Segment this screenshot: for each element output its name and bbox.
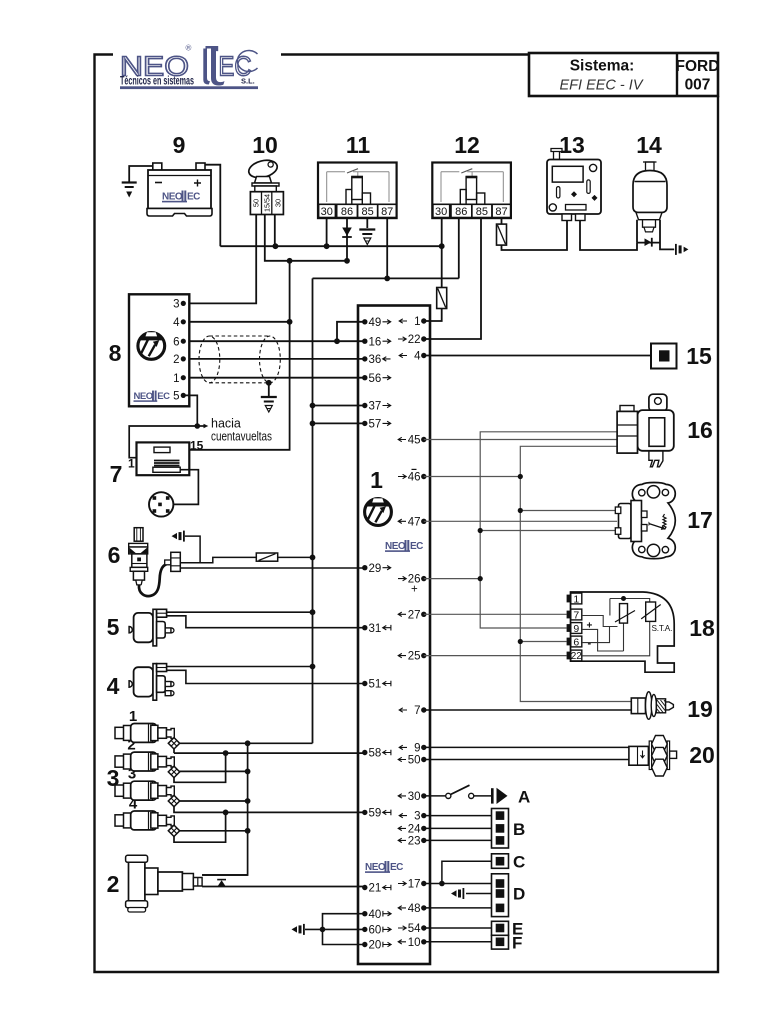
svg-text:6: 6 — [108, 542, 121, 568]
svg-text:3: 3 — [414, 811, 420, 823]
svg-text:49: 49 — [369, 317, 382, 329]
svg-text:10: 10 — [408, 937, 421, 949]
svg-text:25: 25 — [408, 651, 421, 663]
svg-text:56: 56 — [369, 373, 382, 385]
svg-text:10: 10 — [252, 132, 278, 158]
svg-text:1: 1 — [414, 316, 420, 328]
svg-text:1: 1 — [129, 708, 137, 725]
svg-text:15/54: 15/54 — [262, 194, 271, 212]
svg-text:15: 15 — [190, 439, 204, 453]
svg-text:31: 31 — [369, 623, 382, 635]
svg-text:F: F — [512, 934, 522, 953]
svg-text:21: 21 — [369, 883, 382, 895]
svg-text:5: 5 — [173, 391, 179, 403]
svg-text:40: 40 — [369, 909, 382, 921]
svg-text:29: 29 — [369, 563, 382, 575]
svg-text:30: 30 — [408, 791, 421, 803]
svg-text:B: B — [513, 820, 525, 839]
svg-text:54: 54 — [408, 923, 421, 935]
svg-text:007: 007 — [685, 77, 711, 94]
svg-text:FORD: FORD — [676, 58, 720, 75]
svg-text:2: 2 — [107, 871, 120, 897]
svg-text:7: 7 — [110, 461, 123, 487]
svg-text:S.T.A.: S.T.A. — [652, 624, 673, 633]
svg-text:27: 27 — [408, 609, 421, 621]
svg-text:C: C — [513, 853, 525, 872]
svg-text:30: 30 — [273, 199, 282, 207]
svg-text:Sistema:: Sistema: — [570, 58, 635, 75]
svg-text:59: 59 — [369, 808, 382, 820]
svg-text:A: A — [518, 788, 530, 807]
svg-text:12: 12 — [454, 132, 480, 158]
svg-text:16: 16 — [687, 417, 713, 443]
svg-text:5: 5 — [107, 614, 120, 640]
svg-text:57: 57 — [369, 419, 382, 431]
svg-text:46: 46 — [408, 472, 421, 484]
svg-text:15: 15 — [686, 343, 712, 369]
svg-text:48: 48 — [408, 903, 421, 915]
svg-text:47: 47 — [408, 516, 421, 528]
svg-text:4: 4 — [107, 673, 120, 699]
svg-text:22: 22 — [408, 334, 421, 346]
svg-text:hacia: hacia — [211, 417, 241, 431]
svg-text:9: 9 — [573, 623, 579, 635]
svg-text:+: + — [587, 621, 593, 632]
svg-text:1: 1 — [573, 594, 579, 606]
svg-text:1: 1 — [173, 373, 179, 385]
svg-text:8: 8 — [109, 340, 122, 366]
svg-text:3: 3 — [173, 299, 179, 311]
svg-text:4: 4 — [173, 317, 180, 329]
svg-text:17: 17 — [408, 879, 421, 891]
svg-text:7: 7 — [573, 610, 579, 622]
svg-text:14: 14 — [636, 132, 662, 158]
svg-text:11: 11 — [346, 132, 371, 158]
svg-text:cuentavueltas: cuentavueltas — [211, 430, 272, 444]
svg-text:50: 50 — [408, 755, 421, 767]
svg-text:®: ® — [186, 44, 192, 53]
svg-text:18: 18 — [689, 615, 715, 641]
svg-text:S.L.: S.L. — [241, 77, 255, 86]
svg-text:9: 9 — [414, 743, 420, 755]
svg-text:16: 16 — [369, 336, 382, 348]
svg-text:37: 37 — [369, 401, 382, 413]
svg-text:+: + — [411, 584, 418, 596]
svg-text:1: 1 — [128, 457, 135, 471]
svg-text:EFI EEC - IV: EFI EEC - IV — [560, 78, 644, 94]
svg-text:Técnicos en sistemas: Técnicos en sistemas — [120, 76, 194, 88]
svg-text:60: 60 — [369, 925, 382, 937]
svg-text:20: 20 — [689, 742, 715, 768]
svg-text:50: 50 — [252, 199, 261, 207]
svg-text:6: 6 — [173, 336, 179, 348]
svg-text:6: 6 — [573, 637, 579, 649]
svg-text:D: D — [513, 885, 525, 904]
svg-text:58: 58 — [369, 748, 382, 760]
svg-text:22: 22 — [571, 651, 583, 662]
svg-text:20: 20 — [369, 940, 382, 952]
svg-text:51: 51 — [369, 679, 382, 691]
svg-text:2: 2 — [173, 354, 179, 366]
svg-text:23: 23 — [408, 836, 421, 848]
svg-text:17: 17 — [687, 507, 713, 533]
svg-text:45: 45 — [408, 435, 421, 447]
svg-text:-: - — [588, 638, 592, 650]
svg-text:13: 13 — [559, 132, 585, 158]
svg-text:19: 19 — [687, 696, 713, 722]
svg-text:4: 4 — [414, 351, 421, 363]
svg-text:36: 36 — [369, 354, 382, 366]
svg-text:9: 9 — [173, 132, 186, 158]
svg-text:7: 7 — [414, 705, 420, 717]
svg-text:1: 1 — [370, 467, 383, 493]
svg-text:24: 24 — [408, 824, 421, 836]
